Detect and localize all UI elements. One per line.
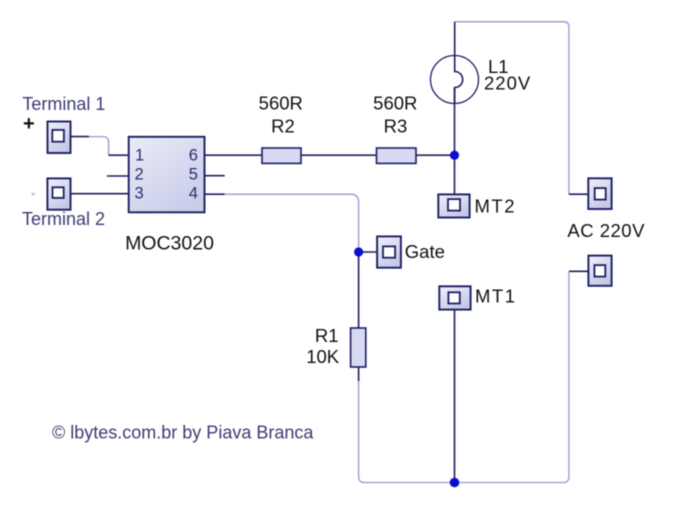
junction dot at bottom rail node bbox=[450, 478, 460, 488]
wire: Terminal 1 to pin 1 bbox=[71, 137, 130, 156]
wire: lamp bottom to junction bbox=[454, 88, 456, 156]
wire: MT1 down to bottom rail bbox=[454, 310, 456, 483]
wire: junction down to MT2 bbox=[454, 155, 456, 195]
svg-text:© lbytes.com.br by Piava Branc: © lbytes.com.br by Piava Branca bbox=[52, 423, 314, 443]
wire: top rail from lamp top to AC upper right bbox=[455, 22, 569, 194]
faint polarity mark bbox=[32, 193, 35, 195]
wire: R2 to R3 bbox=[301, 154, 377, 156]
resistor R3 bbox=[377, 148, 417, 163]
svg-text:R3: R3 bbox=[384, 115, 408, 136]
junction dot at R3 / lamp / MT2 node bbox=[450, 151, 459, 160]
wire: right side down to bottom rail bbox=[455, 271, 569, 482]
wire: R1 bottom lead bbox=[358, 366, 360, 381]
terminal AC lower bbox=[588, 256, 611, 286]
terminal MT1 bbox=[439, 286, 470, 309]
svg-text:MT2: MT2 bbox=[475, 195, 517, 216]
wire: gate junction down to R1 top bbox=[358, 252, 360, 329]
wire: AC lower terminal connection bbox=[569, 270, 589, 272]
optocoupler U1 MOC3020 body with pin numbers bbox=[129, 137, 205, 213]
svg-text:6: 6 bbox=[189, 147, 198, 165]
lamp L1 bbox=[431, 56, 479, 104]
svg-text:R1: R1 bbox=[315, 325, 339, 346]
svg-text:MT1: MT1 bbox=[475, 286, 517, 307]
svg-text:560R: 560R bbox=[259, 93, 303, 114]
junction dot at gate node bbox=[354, 247, 363, 256]
pin 4 stub bbox=[205, 193, 225, 195]
svg-text:MOC3020: MOC3020 bbox=[125, 232, 214, 254]
svg-text:Terminal 1: Terminal 1 bbox=[22, 94, 105, 114]
svg-text:5: 5 bbox=[189, 166, 198, 184]
svg-text:AC 220V: AC 220V bbox=[567, 220, 645, 241]
terminal MT2 bbox=[438, 194, 469, 217]
svg-text:+: + bbox=[23, 113, 35, 135]
wire: bottom rail left segment up to R1 bbox=[359, 379, 455, 483]
wire: pin 6 to R2 bbox=[205, 154, 263, 156]
svg-text:R2: R2 bbox=[271, 115, 295, 136]
wire: pin 4 to gate junction bbox=[224, 194, 359, 252]
terminal T2 (Terminal 2) bbox=[47, 178, 70, 209]
pin 5 stub bbox=[205, 175, 225, 177]
terminal T1 (Terminal 1) bbox=[48, 122, 71, 154]
svg-text:560R: 560R bbox=[373, 93, 417, 114]
resistor R1 bbox=[351, 328, 366, 367]
pin 2 stub bbox=[107, 175, 129, 177]
wire: R3 to junction bbox=[416, 154, 455, 156]
terminal AC upper bbox=[588, 178, 611, 209]
svg-text:1: 1 bbox=[135, 147, 144, 165]
resistor R2 bbox=[262, 148, 301, 163]
wire: gate junction to Gate terminal bbox=[359, 251, 377, 253]
svg-text:220V: 220V bbox=[484, 72, 531, 93]
svg-text:Gate: Gate bbox=[405, 241, 445, 262]
svg-text:10K: 10K bbox=[306, 346, 340, 367]
terminal Gate bbox=[377, 236, 401, 267]
svg-text:4: 4 bbox=[189, 185, 198, 203]
svg-text:3: 3 bbox=[135, 185, 144, 203]
wire: Terminal 2 to pin 3 bbox=[70, 193, 129, 195]
wire: AC upper terminal connection bbox=[569, 193, 588, 195]
svg-text:Terminal 2: Terminal 2 bbox=[22, 209, 105, 229]
svg-text:2: 2 bbox=[135, 166, 144, 184]
wire: top rail down to lamp bbox=[454, 22, 456, 72]
